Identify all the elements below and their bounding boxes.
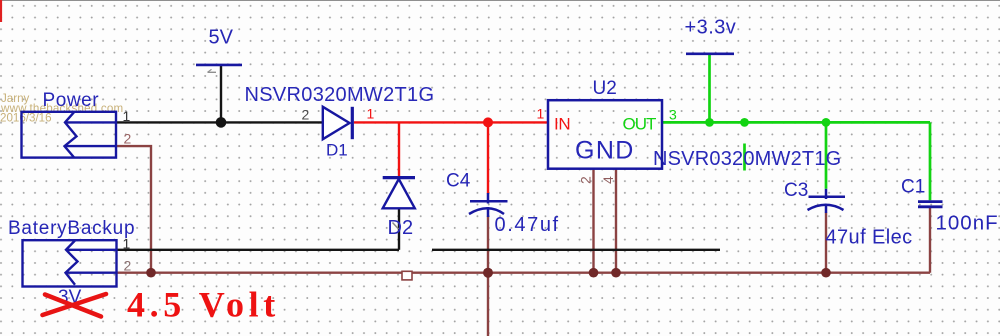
svg-text:U2: U2 [593, 78, 617, 99]
svg-text:+3.3v: +3.3v [685, 17, 737, 39]
svg-text:4.5 Volt: 4.5 Volt [127, 285, 280, 325]
svg-text:1: 1 [367, 106, 375, 122]
svg-text:C3: C3 [784, 180, 808, 201]
svg-text:C1: C1 [901, 177, 925, 198]
svg-text:NSVR0320MW2T1G: NSVR0320MW2T1G [245, 84, 435, 106]
svg-text:2: 2 [124, 258, 132, 274]
svg-text:Power: Power [43, 90, 100, 111]
svg-text:1: 1 [123, 108, 131, 124]
svg-text:1: 1 [123, 236, 131, 252]
svg-text:0.47uf: 0.47uf [495, 214, 560, 236]
svg-text:47uf Elec: 47uf Elec [826, 227, 913, 249]
svg-text:5V: 5V [209, 27, 234, 49]
svg-text:NSVR0320MW2T1G: NSVR0320MW2T1G [653, 148, 841, 170]
svg-text:2016/3/16: 2016/3/16 [0, 112, 52, 125]
svg-text:3: 3 [669, 107, 677, 123]
svg-text:2: 2 [302, 107, 310, 123]
svg-text:D2: D2 [388, 217, 414, 239]
svg-text:1: 1 [537, 106, 545, 122]
svg-text:C4: C4 [446, 171, 471, 192]
svg-text:4: 4 [600, 176, 616, 184]
svg-text:D1: D1 [326, 141, 348, 160]
svg-text:OUT: OUT [623, 115, 657, 134]
svg-text:BateryBackup: BateryBackup [8, 218, 135, 239]
svg-text:100nF: 100nF [936, 212, 999, 235]
svg-text:IN: IN [554, 115, 570, 134]
svg-text:2: 2 [124, 131, 132, 147]
svg-text:GND: GND [575, 137, 635, 165]
svg-text:2: 2 [578, 176, 594, 184]
